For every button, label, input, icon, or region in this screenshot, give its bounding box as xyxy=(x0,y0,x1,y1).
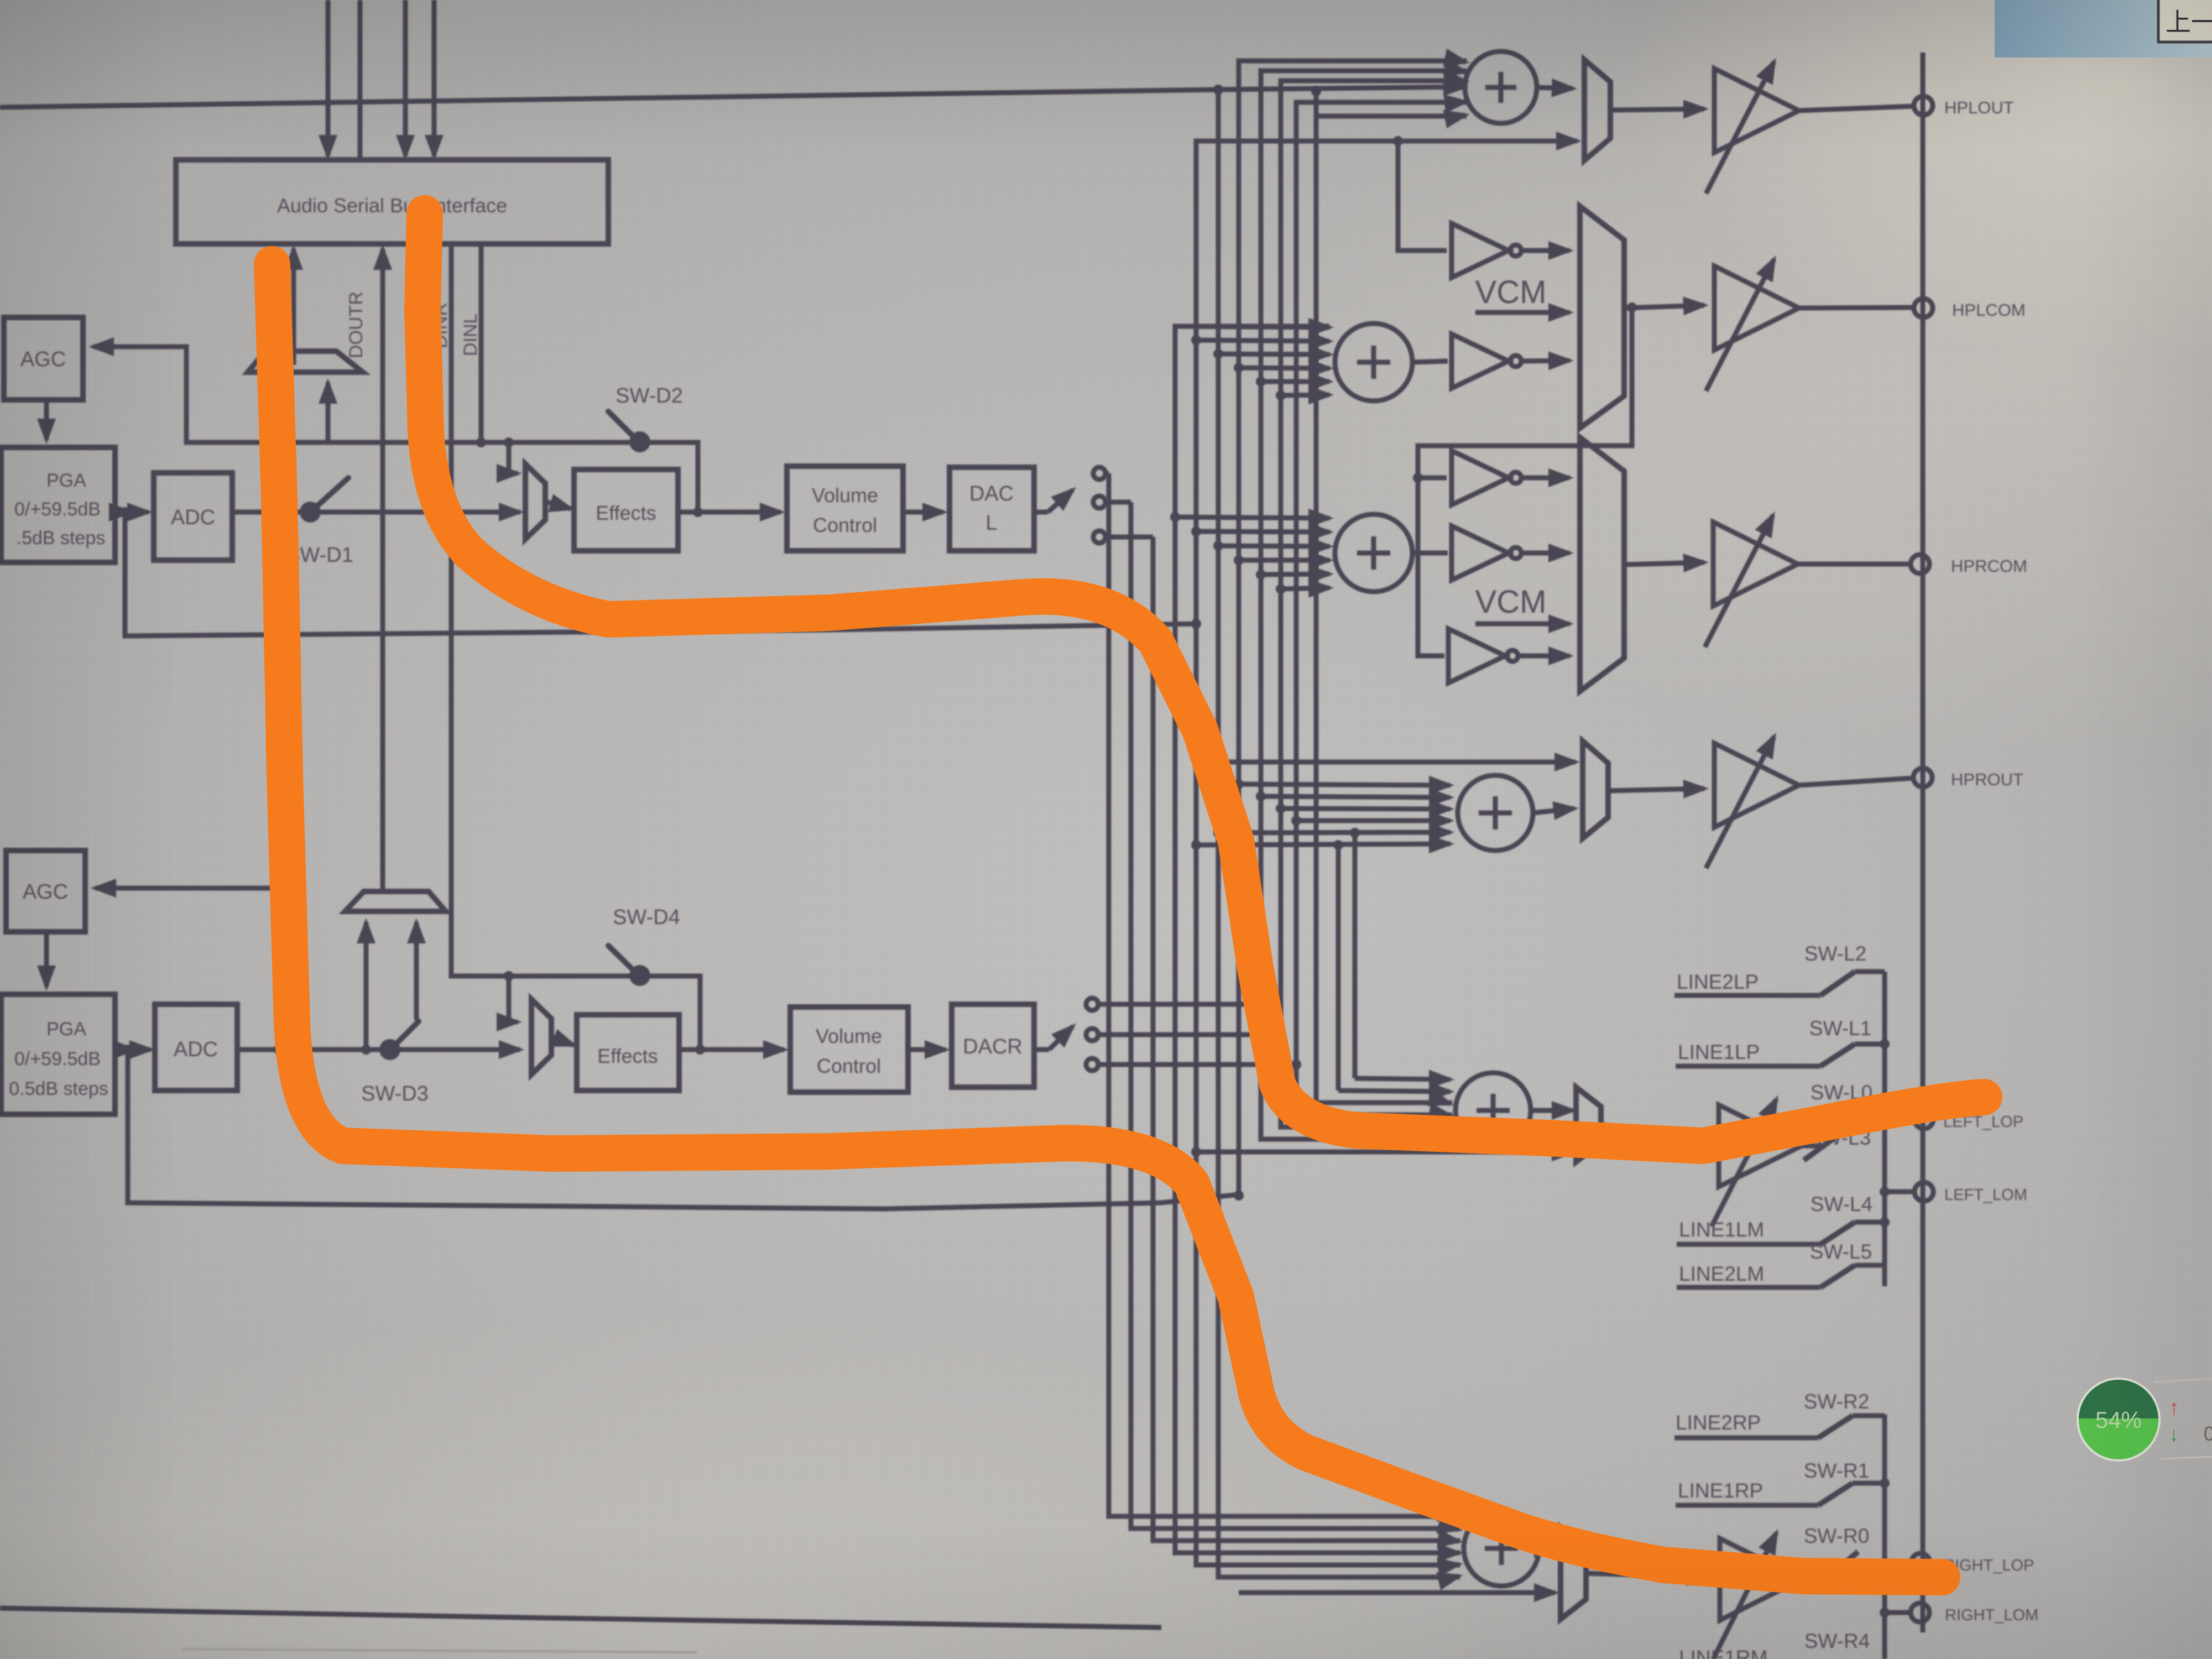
mux HPLCOM output mux xyxy=(1580,206,1624,428)
mux HPLOUT output mux xyxy=(1584,60,1610,160)
wire serializer2 input 2 up xyxy=(414,922,419,1020)
block ADC channel 2 xyxy=(155,1004,237,1091)
wire serial clock line 1 into ASBI xyxy=(326,0,331,156)
block PGA channel 2 xyxy=(1,994,115,1114)
switch DAC L output selector xyxy=(1034,467,1105,543)
block PGA channel 1 xyxy=(1,447,115,562)
switch SW-D4 xyxy=(608,906,680,986)
wire switch SW-D3 to DAC mux 2 xyxy=(398,1047,520,1052)
orange marker stroke B (DINR trace to LEFT_LOP) xyxy=(422,213,1984,1146)
wire HPLOUT mux output to amp xyxy=(1610,109,1704,110)
wire up into serializer mux 1 xyxy=(326,383,331,442)
wire DIN line 4 into ASBI xyxy=(432,0,437,156)
wire bus vertical v5 with HPLOUT bypass xyxy=(1196,141,1569,1565)
wire sum1 output to HPLOUT mux xyxy=(1535,87,1573,88)
wire stub to HPRCOM buffer1 xyxy=(1418,476,1447,481)
switch SW-R1 with LINE1RP xyxy=(1676,1459,1890,1505)
pin RIGHT_LOP xyxy=(1880,1553,2034,1574)
block DACR xyxy=(952,1004,1034,1087)
buffer inverting amp HPRCOM b2 xyxy=(1452,526,1569,580)
wire DACR contact 3 to bus xyxy=(1098,1062,1296,1067)
wire bus vertical v8 xyxy=(1261,71,1467,1139)
wire bus vertical v10 xyxy=(1296,102,1467,1115)
block AGC channel 1 xyxy=(4,317,83,400)
mux DAC source select 2 xyxy=(531,999,551,1074)
tooltip edge lines near badge xyxy=(2154,1379,2212,1382)
sum S4 HPROUT summing node xyxy=(1458,775,1533,851)
switch SW-L4 with LINE1LM xyxy=(1677,1193,1890,1244)
node junction AGC2 tap on ADC2 output xyxy=(274,1045,284,1055)
node junction on top wire xyxy=(1213,85,1223,95)
mux HPROUT output mux xyxy=(1583,741,1608,838)
block U1 Audio Serial Bus Interface xyxy=(176,160,608,244)
block ADC channel 1 xyxy=(154,473,232,560)
amp HPLOUT driver xyxy=(1706,62,1914,194)
pin HPROUT xyxy=(1913,768,2023,789)
switch DACR output selector xyxy=(1034,998,1098,1071)
block Volume Control channel 1 xyxy=(787,466,903,551)
mux serializer 1 (flat trapezoid) xyxy=(248,351,363,372)
switch SW-D1 xyxy=(286,478,353,567)
wire channel1 feedback long line xyxy=(125,512,1196,636)
wire switch SW-D1 to DAC mux 1 xyxy=(318,510,520,515)
block Effects channel 1 xyxy=(574,469,678,551)
wire Effects2 to Volume Control 2 xyxy=(679,1047,784,1052)
wire bus vertical v11 xyxy=(1316,116,1467,1103)
node junction serializer2 tap xyxy=(361,1045,371,1055)
wire DACR contact 1 to bus xyxy=(1098,1002,1261,1007)
wire sum2 fan lines xyxy=(1175,326,1329,327)
block Effects channel 2 xyxy=(577,1015,679,1091)
wire AGC2 to PGA2 xyxy=(44,932,49,987)
sum S3 HPRCOM summing node xyxy=(1335,514,1412,592)
node junction ADC2 input feedback tap xyxy=(123,1045,133,1055)
wire HPROUT bypass into mux input2 xyxy=(1218,760,1575,765)
button top right with chinese label xyxy=(2158,0,2212,42)
wire PGA2 to ADC2 double chevron xyxy=(115,1047,134,1052)
amp HPLCOM driver xyxy=(1706,259,1914,391)
wire DACR contact 2 to bus xyxy=(1098,1032,1281,1037)
wire sum2 output to buffer xyxy=(1412,361,1448,362)
node junction bypass to buffer drop xyxy=(1393,136,1403,146)
block DAC L xyxy=(950,467,1034,551)
mux serializer 2 (flat trapezoid) xyxy=(345,891,446,911)
pin LEFT_LOP xyxy=(1880,1110,2023,1131)
wire ADC1 serial data up into ASBI xyxy=(291,249,296,365)
wire sum4 fan lines xyxy=(1239,784,1450,785)
switch SW-L0 xyxy=(1811,1081,1872,1129)
wire branch down into DAC mux1 top input xyxy=(504,437,514,447)
wire DACL contact 2 to bus xyxy=(1105,500,1131,505)
wire HPLCOM feedback down-left to HPRCOM group xyxy=(1418,307,1632,656)
label VCM 1 xyxy=(1475,274,1569,312)
wire HPLCOM mux output to amp xyxy=(1624,305,1704,308)
wire RIGHT mux input 2 xyxy=(1239,1590,1555,1595)
label VCM 2 xyxy=(1475,584,1569,624)
node junction SW-D2 on effects output wire xyxy=(693,507,703,517)
pin RIGHT_LOM xyxy=(1880,1603,2038,1624)
wire AGC1 tap and SW-D2 bypass line xyxy=(97,347,698,512)
wire DACL contact 1 to bus xyxy=(1105,471,1109,476)
wire bus vertical v1 to right lineout sum xyxy=(1109,473,1460,1516)
sum S6 RIGHT lineout summing node xyxy=(1464,1511,1539,1586)
block AGC channel 2 xyxy=(6,851,85,932)
wire serializer2 input 1 up xyxy=(364,922,369,1050)
wire sum5 output to LEFT mux xyxy=(1531,1108,1573,1113)
wire bus vertical v2 xyxy=(1131,502,1460,1528)
wire RIGHT mux output to amp xyxy=(1586,1573,1708,1577)
wire LEFT output select bus vertical xyxy=(1882,972,1887,1286)
switch SW-L5 with LINE2LM xyxy=(1677,1240,1885,1287)
sum S5 LEFT lineout summing node xyxy=(1455,1073,1531,1148)
wire bus vertical v3 xyxy=(1153,537,1460,1541)
node junction feedback to bus xyxy=(1191,619,1201,629)
wire Effects1 to Volume Control 1 xyxy=(678,510,781,515)
wire AGC1 to PGA1 xyxy=(44,400,49,440)
wire mux2 output into Effects 2 xyxy=(551,1037,573,1045)
wire DINR vertical from ASBI down to channel2 bypass xyxy=(451,244,700,1050)
switch SW-R4 with LINE1RM xyxy=(1679,1630,1870,1659)
wire AGC2 input tap xyxy=(100,888,279,1050)
buffer inverting amp HPLCOM b2 xyxy=(1452,334,1569,388)
switch SW-L2 with LINE2LP xyxy=(1674,942,1885,995)
buffer inverting amp HPLCOM b1 xyxy=(1452,223,1569,278)
wire long bottom line xyxy=(0,1608,1161,1627)
wire VC1 to DAC L xyxy=(903,510,943,515)
wire output rail vertical xyxy=(1921,53,1926,1632)
mux RIGHT lineout mux xyxy=(1561,1527,1586,1619)
faint reflection edge bottom left xyxy=(182,1649,697,1652)
wire DIN line 3 into ASBI xyxy=(403,0,408,156)
switch SW-D3 xyxy=(361,1021,429,1105)
block Volume Control channel 2 xyxy=(790,1007,908,1092)
wire LEFT mux output to amp xyxy=(1601,1125,1706,1139)
wire LEFT mux input 2 (under orange) xyxy=(1196,1150,1573,1155)
pin HPRCOM xyxy=(1911,555,2027,576)
switch SW-R0 xyxy=(1804,1525,1870,1579)
wire top horizontal signal wire xyxy=(0,87,1463,107)
amp HPRCOM driver xyxy=(1705,515,1911,647)
pin LEFT_LOM xyxy=(1880,1182,2027,1204)
wire mux1 output into Effects 1 xyxy=(545,502,571,509)
pin HPLOUT xyxy=(1914,96,2014,117)
wire DINL vertical from ASBI down xyxy=(479,244,484,442)
wire sum3 fan lines xyxy=(1175,517,1329,518)
switch SW-L1 with LINE1LP xyxy=(1676,1017,1890,1066)
wire bus vertical v4 xyxy=(1175,326,1460,1553)
wire sum3 output to buffer xyxy=(1412,551,1448,556)
mux LEFT lineout mux xyxy=(1576,1087,1601,1162)
node junction ADC1 input feedback tap xyxy=(120,507,130,517)
switch SW-D2 xyxy=(608,384,683,452)
wire bus vertical v9 xyxy=(1281,81,1467,1127)
badge green 54% xyxy=(2075,1376,2162,1462)
wire branch down into DAC mux2 top input xyxy=(504,971,514,981)
amp HPROUT driver xyxy=(1706,737,1913,868)
wire bus vertical v6 xyxy=(1218,90,1460,1577)
buffer inverting amp HPRCOM b1 xyxy=(1452,451,1569,505)
wire ADC1 output to switch xyxy=(232,510,303,515)
wire bus vertical v7 xyxy=(1239,61,1467,1196)
switch SW-L3 xyxy=(1804,1126,1871,1160)
wire bypass arrow into HPLOUT mux input 2 xyxy=(1565,139,1577,144)
wire PGA1 to ADC1 with double chevron xyxy=(115,510,130,515)
pin HPLCOM xyxy=(1914,299,2026,320)
amp LEFT lineout driver xyxy=(1712,1099,1825,1227)
mux HPRCOM output mux xyxy=(1580,437,1624,691)
wire channel2 feedback long line xyxy=(128,1050,1239,1209)
wire DACL contact 3 to bus xyxy=(1105,535,1153,540)
node junction HPLCOM output feedback xyxy=(1627,302,1637,312)
amp RIGHT lineout driver xyxy=(1713,1533,1825,1659)
wire sum5 fan arrowheads xyxy=(1447,1103,1450,1104)
sum S2 HPLCOM summing node xyxy=(1335,324,1412,401)
orange marker stroke A (DOUTR trace to RIGHT_LOP) xyxy=(272,264,1942,1577)
wire sum6 output to RIGHT mux xyxy=(1539,1546,1555,1551)
mux DAC source select 1 xyxy=(525,464,545,539)
node junction ch2 feedback to bus xyxy=(1234,1191,1244,1201)
wire serial line 2 xyxy=(358,0,363,160)
blue panel top right xyxy=(1995,0,2212,58)
wire drop to HPLCOM buffer 1 xyxy=(1398,141,1447,251)
wire HPRCOM mux output to amp xyxy=(1624,562,1704,565)
buffer inverting amp HPRCOM b3 xyxy=(1448,629,1569,683)
wire sum1 fan arrowheads xyxy=(1460,61,1465,62)
wire HPROUT mux output to amp xyxy=(1608,789,1704,791)
wire RIGHT output select bus vertical xyxy=(1882,1415,1887,1659)
wire sum4 output to HPROUT mux xyxy=(1533,808,1574,813)
node junction SW-D4 on effects2 output xyxy=(695,1045,705,1055)
wire ADC2 output xyxy=(237,1047,383,1052)
switch SW-R2 with LINE2RP xyxy=(1674,1390,1885,1438)
sum S1 HPLOUT summing node xyxy=(1465,51,1537,123)
wire DOUTR vertical from serializer 2 up into ASBI xyxy=(380,249,385,891)
wire VC2 to DACR xyxy=(908,1047,946,1052)
wire sum6 fan arrowheads xyxy=(1454,1516,1459,1517)
